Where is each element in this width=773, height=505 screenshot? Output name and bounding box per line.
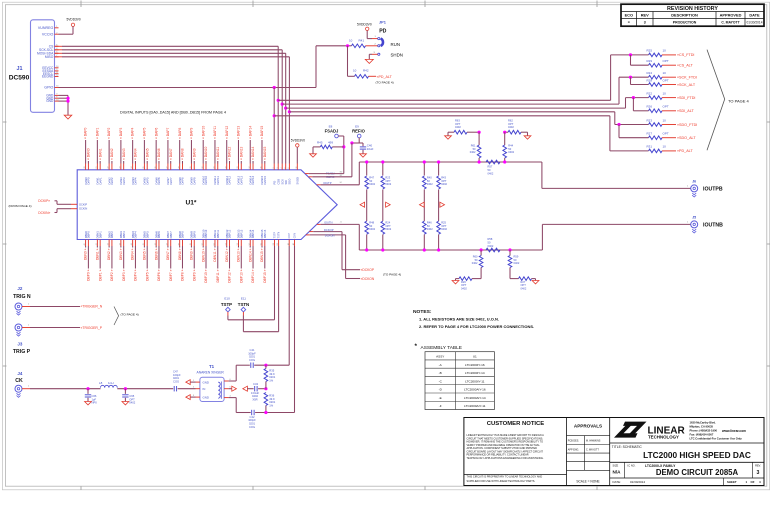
svg-text:M7: M7 (340, 175, 343, 177)
svg-text:« DAN5: « DAN5 (145, 148, 149, 160)
svg-text:« DAP2: « DAP2 (107, 127, 111, 139)
svg-text:DBN15 »: DBN15 » (260, 248, 264, 262)
svg-text:DAP5: DAP5 (145, 177, 149, 185)
svg-text:1. ALL RESISTORS ARE SIZE 0402: 1. ALL RESISTORS ARE SIZE 0402, U.O.N. (419, 316, 499, 321)
svg-text:R6: R6 (273, 243, 275, 245)
svg-text:0402: 0402 (427, 227, 433, 231)
svg-text:GND: GND (203, 380, 209, 384)
svg-text:APPROVALS: APPROVALS (574, 423, 602, 428)
svg-text:2. REFER TO PAGE 4 FOR LTC2000: 2. REFER TO PAGE 4 FOR LTC2000 POWER CON… (419, 324, 534, 329)
svg-text:DBP11 »: DBP11 » (216, 269, 220, 282)
svg-text:T1: T1 (209, 364, 215, 369)
svg-text:DCKOP: DCKOP (324, 228, 334, 232)
svg-text:DBP13: DBP13 (239, 229, 243, 238)
svg-text:«SCK_ALT: «SCK_ALT (677, 83, 696, 87)
svg-text:DAP14: DAP14 (251, 175, 255, 184)
svg-text:0402: 0402 (129, 401, 135, 405)
svg-text:J1: J1 (340, 222, 342, 224)
svg-text:R27: R27 (647, 132, 653, 136)
svg-text:RUN: RUN (391, 42, 401, 47)
svg-text:28: 28 (178, 167, 180, 169)
svg-text:J5: J5 (692, 215, 696, 219)
svg-text:3: 3 (644, 21, 646, 25)
svg-text:Milpitas, CA 95035: Milpitas, CA 95035 (690, 425, 714, 429)
svg-text:DAP9: DAP9 (192, 177, 196, 185)
svg-text:TSTP: TSTP (274, 232, 277, 239)
svg-text:22: 22 (108, 167, 110, 169)
svg-text:IOUTNB: IOUTNB (703, 223, 723, 229)
svg-text:R42: R42 (363, 69, 369, 73)
svg-text:DBP9: DBP9 (192, 231, 196, 239)
svg-text:REV.: REV. (755, 464, 761, 468)
svg-text:01/30/2014: 01/30/2014 (630, 480, 645, 484)
svg-text:R25: R25 (647, 49, 653, 53)
svg-text:499: 499 (328, 140, 333, 144)
svg-text:LTC2000 HIGH SPEED DAC: LTC2000 HIGH SPEED DAC (643, 450, 751, 460)
svg-text:34: 34 (249, 167, 251, 169)
svg-text:LTC2000IY-14: LTC2000IY-14 (465, 371, 485, 375)
svg-text:ECO: ECO (625, 12, 633, 17)
svg-text:E10: E10 (224, 297, 230, 301)
svg-text:TSTP: TSTP (221, 302, 232, 307)
svg-text:DAP4: DAP4 (134, 177, 138, 185)
svg-text:DAP11: DAP11 (216, 176, 220, 185)
svg-text:49: 49 (190, 243, 192, 245)
svg-text:23: 23 (119, 167, 121, 169)
svg-text:DBP10 »: DBP10 » (204, 269, 208, 282)
svg-text:Fax: (408)434-0507: Fax: (408)434-0507 (690, 433, 714, 437)
svg-text:27: 27 (167, 167, 169, 169)
svg-text:DCKON: DCKON (325, 233, 335, 237)
svg-text:DC590: DC590 (9, 75, 30, 82)
svg-text:« DAN1: « DAN1 (98, 148, 102, 160)
svg-text:« DAN3: « DAN3 (122, 148, 126, 160)
svg-text:DCKIN»: DCKIN» (38, 211, 50, 215)
svg-text:«DCKOP: «DCKOP (361, 268, 375, 272)
svg-text:«SDI_FTDI: «SDI_FTDI (677, 96, 695, 100)
svg-text:« DAN8: « DAN8 (181, 148, 185, 160)
svg-text:C. MAYOTT: C. MAYOTT (721, 21, 740, 25)
svg-text:CSB: CSB (276, 179, 280, 185)
svg-text:10: 10 (663, 145, 667, 149)
svg-text:SDI: SDI (284, 180, 288, 185)
svg-text:DEMO CIRCUIT 2085A: DEMO CIRCUIT 2085A (656, 468, 739, 477)
svg-text:DBN6 »: DBN6 » (154, 248, 158, 260)
svg-text:REFIO: REFIO (352, 128, 366, 133)
svg-text:R24: R24 (647, 71, 653, 75)
svg-text:DBN12 »: DBN12 » (225, 248, 229, 262)
svg-text:DBN14 »: DBN14 » (248, 248, 252, 262)
svg-text:1nH: 1nH (108, 381, 114, 385)
svg-text:LTC2000AIY-11: LTC2000AIY-11 (464, 404, 486, 408)
svg-text:1%: 1% (269, 403, 273, 407)
svg-text:«TRIGGER_N: «TRIGGER_N (81, 305, 103, 309)
svg-text:APPROVED: APPROVED (720, 12, 742, 17)
svg-text:FSADJ: FSADJ (325, 128, 339, 133)
svg-text:0402: 0402 (508, 125, 514, 129)
svg-text:OF: OF (751, 480, 755, 484)
svg-text:DBN8 »: DBN8 » (178, 248, 182, 260)
svg-text:DAP15: DAP15 (263, 175, 267, 184)
svg-text:« DAP8: « DAP8 (178, 127, 182, 139)
svg-text:« DAN0: « DAN0 (87, 148, 91, 160)
svg-text:PRODUCTION: PRODUCTION (673, 21, 697, 25)
svg-text:DBP7: DBP7 (169, 231, 173, 239)
svg-text:0402: 0402 (385, 182, 391, 186)
svg-text:0402: 0402 (441, 182, 447, 186)
svg-text:DATE:: DATE: (613, 480, 621, 484)
svg-text:DAP0: DAP0 (87, 177, 91, 185)
svg-text:« DAN14: « DAN14 (251, 146, 255, 160)
svg-text:« DAN4: « DAN4 (134, 148, 138, 160)
svg-text:PD: PD (379, 29, 386, 35)
svg-text:COG: COG (173, 380, 179, 384)
svg-text:M2: M2 (340, 172, 343, 174)
svg-text:EEGND: EEGND (42, 75, 54, 79)
svg-text:«DCKON: «DCKON (361, 277, 375, 281)
svg-text:54: 54 (249, 243, 251, 245)
svg-text:DBP15: DBP15 (263, 229, 267, 238)
svg-text:0402: 0402 (461, 286, 467, 290)
svg-text:DCKIP»: DCKIP» (38, 199, 50, 203)
svg-text:DBN13 »: DBN13 » (237, 248, 241, 262)
svg-text:DBP2 »: DBP2 » (110, 269, 114, 281)
svg-text:TECHNOLOGY APPLICATIONS ENGINE: TECHNOLOGY APPLICATIONS ENGINEERING FOR … (467, 457, 544, 460)
svg-text:J4: J4 (17, 371, 23, 376)
svg-text:0402: 0402 (521, 286, 527, 290)
svg-text:X5R: X5R (252, 397, 257, 401)
svg-text:DAP10: DAP10 (204, 175, 208, 184)
svg-text:DBP14 »: DBP14 » (251, 269, 255, 282)
svg-text:THIS CIRCUIT IS PROPRIETARY TO: THIS CIRCUIT IS PROPRIETARY TO LINEAR TE… (467, 476, 543, 479)
svg-text:« DAP11: « DAP11 (213, 126, 217, 139)
svg-text:0402: 0402 (369, 182, 375, 186)
svg-text:=: = (628, 21, 630, 25)
svg-text:IOUTPB: IOUTPB (703, 187, 723, 193)
svg-text:DBP0 »: DBP0 » (87, 269, 91, 281)
svg-text:COG: COG (249, 425, 255, 429)
svg-text:DBP6: DBP6 (157, 231, 161, 239)
svg-text:DBN4 »: DBN4 » (131, 248, 135, 260)
svg-text:« DAP0: « DAP0 (84, 127, 88, 139)
svg-text:(TO PAGE 4): (TO PAGE 4) (376, 80, 394, 84)
svg-text:(FROM PAGE 4): (FROM PAGE 4) (9, 204, 32, 208)
svg-text:DIGITAL INPUTS [DA0..DA15] AND: DIGITAL INPUTS [DA0..DA15] AND [DB0..DB1… (120, 111, 226, 115)
svg-text:4: 4 (281, 168, 283, 169)
svg-text:DBP8 »: DBP8 » (181, 269, 185, 281)
svg-text:R5: R5 (277, 243, 279, 245)
svg-text:M. HAWKINS: M. HAWKINS (586, 440, 601, 443)
svg-text:DBN9 »: DBN9 » (190, 248, 194, 260)
svg-text:CKN: CKN (294, 233, 297, 238)
svg-text:SDO: SDO (288, 179, 292, 185)
svg-text:DBP3 »: DBP3 » (122, 269, 126, 281)
svg-text:10: 10 (663, 49, 667, 53)
svg-text:52: 52 (225, 243, 227, 245)
svg-text:DAP7: DAP7 (169, 177, 173, 185)
svg-text:20: 20 (84, 167, 86, 169)
svg-text:J3: J3 (17, 342, 23, 347)
svg-text:10uF: 10uF (367, 147, 374, 151)
svg-text:LTC2000AIY-16: LTC2000AIY-16 (464, 388, 486, 392)
svg-text:« DAP9: « DAP9 (190, 127, 194, 139)
svg-text:DBN3 »: DBN3 » (119, 248, 123, 260)
svg-text:0402: 0402 (508, 150, 514, 154)
svg-text:TSTN: TSTN (238, 302, 249, 307)
svg-text:26: 26 (155, 167, 157, 169)
svg-text:DAP13: DAP13 (239, 175, 243, 184)
svg-text:« DAP5: « DAP5 (143, 127, 147, 139)
svg-text:DBN11 »: DBN11 » (213, 248, 217, 261)
svg-text:46: 46 (155, 243, 157, 245)
svg-text:25: 25 (143, 167, 145, 169)
svg-text:DATE: DATE (749, 12, 760, 17)
svg-text:41: 41 (96, 243, 98, 245)
svg-text:SCALE = NONE: SCALE = NONE (576, 480, 599, 484)
svg-text:10: 10 (353, 69, 357, 73)
svg-text:DBP8: DBP8 (181, 231, 185, 239)
svg-text:R26: R26 (647, 105, 653, 109)
svg-text:SUPPLIED FOR USE WITH LINEAR T: SUPPLIED FOR USE WITH LINEAR TECHNOLOGY … (467, 480, 536, 483)
svg-text:50: 50 (202, 243, 204, 245)
svg-text:48: 48 (178, 243, 180, 245)
svg-text:GND: GND (203, 396, 209, 400)
svg-text:« DAP14: « DAP14 (248, 126, 252, 139)
svg-text:GPIO: GPIO (44, 86, 53, 90)
svg-text:DBP14: DBP14 (251, 229, 255, 238)
svg-text:U1*: U1* (186, 200, 197, 207)
svg-text:TITLE: SCHEMATIC: TITLE: SCHEMATIC (612, 445, 643, 449)
svg-text:1%: 1% (269, 378, 273, 382)
svg-text:43: 43 (119, 243, 121, 245)
svg-text:DBP12: DBP12 (228, 229, 232, 238)
svg-text:55: 55 (261, 243, 263, 245)
svg-text:DAP6: DAP6 (157, 177, 161, 185)
svg-text:« DAP7: « DAP7 (166, 127, 170, 139)
svg-text:«SDI_ALT: «SDI_ALT (677, 109, 694, 113)
svg-text:A6: A6 (287, 243, 290, 245)
svg-text:Phone: (408)432-1900: Phone: (408)432-1900 (690, 429, 718, 433)
svg-text:E11: E11 (241, 297, 246, 301)
svg-text:DBP0: DBP0 (87, 231, 91, 239)
svg-text:«CS_ALT: «CS_ALT (677, 64, 693, 68)
svg-text:« DAP4: « DAP4 (131, 127, 135, 139)
svg-text:DBN2 »: DBN2 » (107, 248, 111, 260)
svg-text:« DAP6: « DAP6 (154, 127, 158, 139)
svg-text:MISO: MISO (45, 55, 54, 59)
svg-text:A5: A5 (292, 243, 295, 245)
svg-text:IOUTN: IOUTN (324, 220, 332, 224)
svg-text:C. MAYOTT: C. MAYOTT (586, 448, 599, 451)
svg-text:DBP12 »: DBP12 » (228, 269, 232, 282)
svg-text:J6: J6 (692, 179, 696, 183)
svg-text:51: 51 (214, 243, 216, 245)
svg-text:«SDO_FTDI: «SDO_FTDI (677, 123, 697, 127)
svg-text:0402: 0402 (385, 227, 391, 231)
svg-text:DAP3: DAP3 (122, 177, 126, 185)
svg-text:40: 40 (84, 243, 86, 245)
svg-text:« DAN2: « DAN2 (110, 148, 114, 160)
svg-text:SCK: SCK (280, 179, 284, 185)
svg-text:LTC2000AIY-14: LTC2000AIY-14 (464, 396, 486, 400)
svg-text:REVISION HISTORY: REVISION HISTORY (667, 6, 718, 12)
svg-text:DBP13 »: DBP13 » (239, 269, 243, 282)
svg-text:DBP4 »: DBP4 » (134, 269, 138, 281)
svg-text:0402: 0402 (455, 125, 461, 129)
svg-text:IOUTP: IOUTP (323, 181, 331, 185)
svg-text:IN: IN (203, 387, 206, 391)
svg-text:2: 2 (273, 168, 275, 169)
svg-text:NP0: NP0 (92, 401, 98, 405)
svg-text:R22: R22 (647, 91, 653, 95)
svg-text:DBP7 »: DBP7 » (169, 269, 173, 281)
svg-text:H1: H1 (340, 182, 342, 184)
svg-text:DBP2: DBP2 (110, 231, 114, 239)
svg-text:DBP6 »: DBP6 » (157, 269, 161, 281)
svg-text:SIZE: SIZE (613, 464, 619, 468)
svg-text:DBP9 »: DBP9 » (192, 269, 196, 281)
svg-text:REV: REV (641, 12, 649, 17)
svg-text:www.linear.com: www.linear.com (721, 429, 746, 433)
svg-text:NOTES:: NOTES: (413, 309, 432, 315)
svg-text:DCKIN: DCKIN (79, 207, 87, 211)
svg-text:TRIG N: TRIG N (13, 294, 31, 300)
svg-text:R23: R23 (647, 118, 653, 122)
svg-text:DBP4: DBP4 (134, 231, 138, 239)
svg-text:-B: -B (439, 371, 442, 375)
svg-text:SHEET: SHEET (727, 480, 737, 484)
svg-text:47: 47 (167, 243, 169, 245)
svg-text:53: 53 (237, 243, 239, 245)
svg-text:U1: U1 (473, 355, 477, 359)
svg-text:« DAN10: « DAN10 (204, 146, 208, 160)
svg-text:APP ENG.: APP ENG. (568, 448, 580, 451)
svg-text:VCCIO: VCCIO (42, 32, 54, 36)
svg-text:DAP8: DAP8 (181, 177, 185, 185)
svg-text:CUSTOMER NOTICE: CUSTOMER NOTICE (487, 421, 545, 427)
svg-text:DBN10 »: DBN10 » (201, 248, 205, 262)
svg-text:« DAN12: « DAN12 (228, 146, 232, 160)
svg-text:OPT: OPT (663, 132, 669, 136)
svg-text:« DAP13: « DAP13 (237, 126, 241, 139)
svg-text:21: 21 (96, 167, 98, 169)
svg-text:TRIG P: TRIG P (13, 349, 31, 355)
svg-text:DBN0 »: DBN0 » (84, 248, 88, 260)
svg-text:DBN1 »: DBN1 » (95, 248, 99, 260)
svg-text:CK: CK (15, 378, 23, 384)
svg-text:« DAP1: « DAP1 (95, 127, 99, 139)
svg-text:ASSY: ASSY (436, 355, 444, 359)
svg-text:R28: R28 (647, 78, 653, 82)
svg-text:OPT: OPT (663, 78, 669, 82)
svg-text:DAP2: DAP2 (110, 177, 114, 185)
svg-text:DBP5 »: DBP5 » (145, 269, 149, 281)
svg-text:44: 44 (131, 243, 133, 245)
svg-text:PCB DES.: PCB DES. (568, 440, 579, 443)
svg-text:SHDN: SHDN (391, 53, 403, 58)
svg-text:«PD_ALT: «PD_ALT (677, 149, 693, 153)
svg-text:45: 45 (143, 243, 145, 245)
svg-text:31: 31 (214, 167, 216, 169)
svg-text:0402: 0402 (488, 171, 494, 175)
svg-text:TO PAGE 4: TO PAGE 4 (728, 99, 750, 104)
svg-text:5: 5 (284, 168, 286, 169)
svg-text:3: 3 (757, 470, 760, 476)
svg-text:« DAN11: « DAN11 (216, 147, 220, 160)
svg-text:DCKIP: DCKIP (79, 202, 87, 206)
svg-text:ANAREN XINGER: ANAREN XINGER (197, 371, 225, 375)
svg-text:DBP1: DBP1 (98, 231, 102, 239)
svg-text:ASSEMBLY TABLE: ASSEMBLY TABLE (421, 345, 463, 351)
svg-text:R31: R31 (647, 145, 653, 149)
svg-text:«SDO_ALT: «SDO_ALT (677, 136, 696, 140)
svg-text:TECHNOLOGY: TECHNOLOGY (648, 434, 679, 439)
svg-text:0402: 0402 (427, 182, 433, 186)
svg-text:0402: 0402 (488, 244, 494, 248)
svg-text:29: 29 (190, 167, 192, 169)
svg-text:R41: R41 (359, 39, 365, 43)
svg-text:33: 33 (237, 167, 239, 169)
svg-text:5VDD3V0: 5VDD3V0 (291, 139, 305, 143)
svg-text:0402: 0402 (470, 150, 476, 154)
svg-text:1630 McCarthy Blvd.: 1630 McCarthy Blvd. (690, 421, 717, 425)
svg-text:0402: 0402 (441, 227, 447, 231)
svg-text:30: 30 (202, 167, 204, 169)
svg-text:10: 10 (349, 39, 353, 43)
svg-text:DBP1 »: DBP1 » (98, 269, 102, 281)
svg-text:TSTN: TSTN (278, 232, 281, 239)
svg-text:32: 32 (225, 167, 227, 169)
svg-text:« DAN9: « DAN9 (192, 148, 196, 160)
svg-text:R45: R45 (317, 140, 323, 144)
svg-text:0402: 0402 (472, 261, 478, 265)
svg-text:3: 3 (277, 168, 279, 169)
svg-text:-F: -F (439, 404, 442, 408)
svg-text:DBP15 »: DBP15 » (263, 269, 267, 282)
svg-text:« DAN15: « DAN15 (263, 146, 267, 160)
svg-text:« DAN13: « DAN13 (239, 146, 243, 160)
svg-text:35: 35 (261, 167, 263, 169)
svg-text:«CS_FTDI: «CS_FTDI (677, 53, 694, 57)
svg-text:« DAP12: « DAP12 (225, 126, 229, 139)
svg-text:DAP1: DAP1 (98, 177, 102, 185)
svg-text:« DAP15: « DAP15 (260, 126, 264, 139)
svg-text:« DAN7: « DAN7 (169, 148, 173, 160)
svg-text:« DAP3: « DAP3 (119, 127, 123, 139)
svg-text:6: 6 (288, 168, 290, 169)
svg-text:DBN5 »: DBN5 » (143, 248, 147, 260)
svg-text:IC NO.: IC NO. (628, 464, 636, 468)
svg-text:(TO PAGE 4): (TO PAGE 4) (383, 273, 401, 277)
svg-text:LTC Confidential-For Customer: LTC Confidential-For Customer Use Only (690, 437, 743, 441)
svg-text:42: 42 (108, 243, 110, 245)
svg-text:OPT: OPT (663, 105, 669, 109)
svg-text:DAP12: DAP12 (228, 175, 232, 184)
svg-text:«TRIGGER_P: «TRIGGER_P (81, 326, 103, 330)
svg-text:-E: -E (439, 396, 442, 400)
svg-text:JP1: JP1 (379, 19, 387, 24)
svg-text:LTC2000IY-16: LTC2000IY-16 (465, 363, 485, 367)
svg-text:5VDD3V0: 5VDD3V0 (357, 22, 372, 26)
svg-text:«SCK_FTDI: «SCK_FTDI (677, 76, 697, 80)
svg-text:DBN7 »: DBN7 » (166, 248, 170, 260)
svg-text:J2: J2 (17, 286, 23, 291)
svg-text:«PD_ALT: «PD_ALT (377, 75, 393, 79)
svg-text:10: 10 (663, 91, 667, 95)
svg-text:CKP: CKP (288, 233, 291, 238)
svg-text:L8: L8 (99, 381, 103, 385)
svg-text:N/A: N/A (613, 469, 622, 474)
